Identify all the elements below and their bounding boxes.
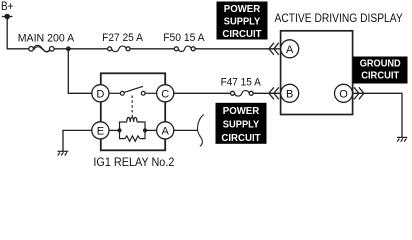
junction dots of parallel branch: [117, 128, 147, 132]
wire F47 to display pin B: [253, 92, 280, 94]
ground circuit box: [353, 57, 408, 84]
svg-text:CIRCUIT: CIRCUIT: [221, 133, 260, 144]
svg-text:GROUND: GROUND: [360, 58, 401, 69]
svg-text:ACTIVE DRIVING DISPLAY: ACTIVE DRIVING DISPLAY: [275, 13, 403, 25]
svg-text:POWER: POWER: [223, 106, 260, 117]
dashed actuation line: [131, 96, 133, 119]
wire A to continuation: [174, 129, 198, 131]
relay IG1 RELAY No.2 outline box: [93, 73, 174, 169]
relay switch contacts and blade: [109, 86, 157, 95]
wire junction down to relay pin D: [68, 49, 92, 94]
resistor (bottom parallel branch): [120, 130, 146, 141]
connector chevrons into display pin B: [269, 87, 279, 99]
fuse F47 15 A: [221, 77, 262, 96]
relay terminal A: [157, 122, 174, 139]
svg-text:CIRCUIT: CIRCUIT: [222, 29, 261, 40]
display pin A: [281, 40, 299, 58]
fuse F27 25 A: [102, 32, 143, 52]
active driving display box: [275, 13, 403, 115]
relay terminal D: [92, 85, 109, 102]
svg-text:A: A: [162, 125, 170, 137]
svg-text:F47 15 A: F47 15 A: [221, 77, 262, 89]
wire E to chassis ground: [63, 130, 92, 151]
svg-text:O: O: [339, 88, 348, 100]
ground (right): [397, 137, 407, 141]
svg-text:B+: B+: [1, 1, 14, 13]
svg-text:E: E: [97, 125, 104, 137]
svg-text:F27 25 A: F27 25 A: [102, 32, 143, 44]
svg-text:SUPPLY: SUPPLY: [223, 120, 260, 131]
relay coil (top parallel branch): [120, 117, 146, 130]
power supply circuit box (top): [217, 2, 268, 41]
power supply circuit box (bottom): [216, 103, 267, 144]
svg-text:CIRCUIT: CIRCUIT: [361, 71, 399, 82]
svg-text:A: A: [286, 44, 294, 56]
connector chevrons out of display pin O: [354, 87, 364, 99]
junction dot on main feed: [66, 46, 71, 51]
relay terminal C: [157, 85, 174, 102]
svg-text:POWER: POWER: [224, 4, 261, 15]
node B+ terminal: [1, 1, 14, 19]
svg-text:C: C: [161, 88, 169, 100]
svg-text:D: D: [96, 88, 104, 100]
svg-text:SUPPLY: SUPPLY: [224, 17, 261, 28]
fuse F50 15 A: [163, 32, 205, 52]
display pin O: [335, 84, 353, 102]
fusible link MAIN 200 A: [18, 32, 75, 52]
ground (left): [58, 151, 69, 155]
wire E to coil and coil to A: [109, 129, 157, 131]
wire B+ down and main feed to display pin A: [7, 17, 280, 49]
connector chevrons into display pin A: [269, 43, 279, 55]
display pin B: [281, 84, 299, 102]
wire O to chassis ground: [353, 93, 402, 137]
continuation squiggle (circuit continues): [197, 115, 203, 147]
wire C to fuse F47: [174, 92, 231, 94]
svg-text:MAIN 200 A: MAIN 200 A: [18, 32, 75, 44]
svg-text:B: B: [286, 88, 293, 100]
svg-text:F50 15 A: F50 15 A: [163, 32, 205, 44]
relay terminal E: [92, 122, 109, 139]
svg-text:IG1 RELAY No.2: IG1 RELAY No.2: [93, 157, 174, 168]
